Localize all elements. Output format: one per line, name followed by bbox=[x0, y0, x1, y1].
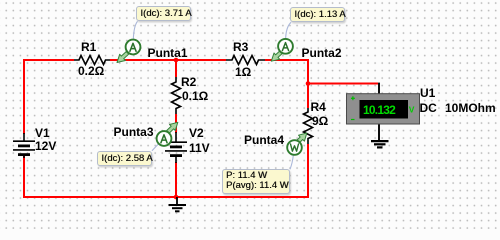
svg-text:V: V bbox=[409, 105, 415, 115]
svg-text:10.132: 10.132 bbox=[363, 103, 396, 117]
